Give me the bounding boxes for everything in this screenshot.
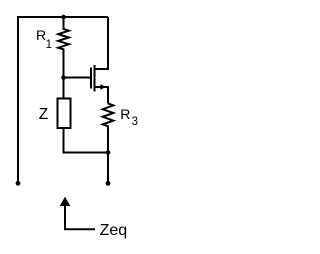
Zeq arrow head bbox=[60, 197, 71, 206]
transistor Q1 source arrow bbox=[100, 84, 106, 90]
wire Z bottom to node bbox=[64, 128, 109, 153]
svg-text:R: R bbox=[36, 27, 46, 43]
svg-text:3: 3 bbox=[132, 116, 138, 128]
resistor R1 bbox=[58, 17, 69, 78]
node junction top bbox=[61, 15, 66, 20]
transistor Q1 channel bar bbox=[94, 65, 96, 92]
node junction gate bbox=[61, 75, 66, 80]
transistor Q1 source lead bbox=[95, 87, 109, 104]
terminal dot right bbox=[106, 181, 111, 186]
transistor Q1 drain lead bbox=[95, 17, 109, 69]
node junction bottom bbox=[106, 150, 111, 155]
wire gate lead bbox=[64, 77, 91, 79]
wire top rail bbox=[18, 16, 108, 18]
svg-text:R: R bbox=[120, 106, 130, 122]
svg-text:Zeq: Zeq bbox=[100, 222, 128, 239]
svg-text:Z: Z bbox=[39, 106, 48, 123]
svg-text:1: 1 bbox=[46, 39, 52, 51]
wire Z branch down from gate node bbox=[63, 78, 65, 99]
wire right terminal bbox=[107, 153, 109, 182]
terminal dot left bbox=[16, 181, 21, 186]
wire left side bbox=[17, 16, 19, 183]
resistor R3 bbox=[103, 104, 114, 153]
Zeq arrow lines bbox=[65, 206, 95, 230]
impedance Z box bbox=[58, 99, 71, 129]
transistor Q1 gate bar bbox=[90, 68, 92, 89]
